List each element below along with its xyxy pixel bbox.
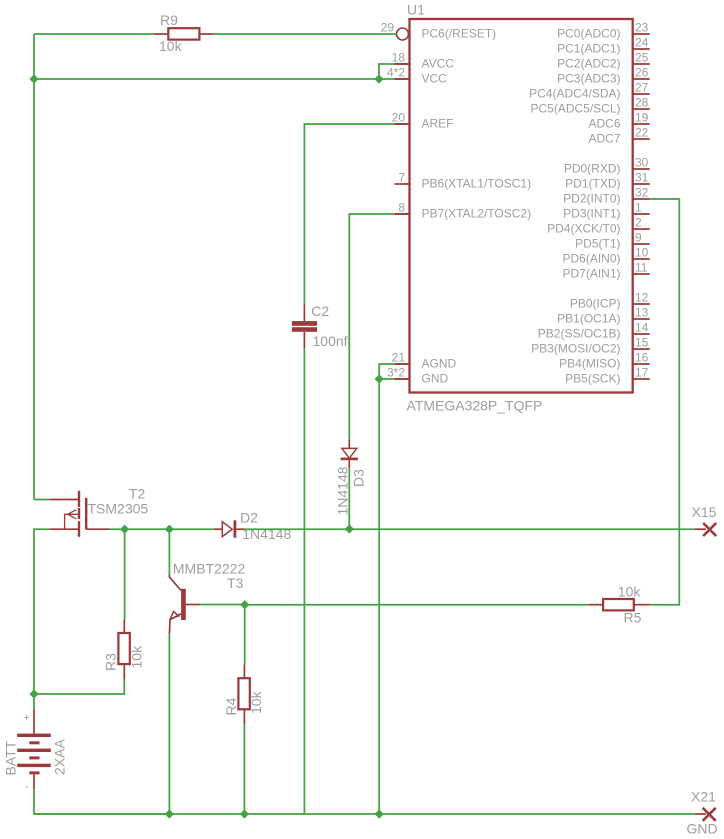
svg-text:17: 17 xyxy=(635,366,649,380)
svg-text:PB6(XTAL1/TOSC1): PB6(XTAL1/TOSC1) xyxy=(422,176,532,190)
svg-text:3*2: 3*2 xyxy=(387,366,405,380)
svg-text:T2: T2 xyxy=(129,486,146,502)
wire PD2 to right rail xyxy=(650,199,680,605)
svg-text:ATMEGA328P_TQFP: ATMEGA328P_TQFP xyxy=(407,398,543,414)
wire R4 to rail xyxy=(243,725,245,814)
pin 20 stub xyxy=(394,123,408,125)
battery BATT lead minus xyxy=(33,774,35,789)
svg-text:PB2(SS/OC1B): PB2(SS/OC1B) xyxy=(538,326,621,340)
diode D2 triangle xyxy=(222,522,232,537)
pin 26 stub xyxy=(633,78,649,80)
wire C2 bottom to GND rail xyxy=(303,348,305,814)
resistor R5 lead left xyxy=(588,604,603,606)
resistor R9 body xyxy=(168,28,199,39)
svg-text:24: 24 xyxy=(635,36,649,50)
svg-text:PD4(XCK/T0): PD4(XCK/T0) xyxy=(547,221,620,235)
transistor T3 base lead xyxy=(186,604,200,606)
pin 13 stub xyxy=(633,318,649,320)
transistor T2 channel bottom segment xyxy=(78,521,80,537)
connector X21 cross xyxy=(703,808,716,821)
svg-text:18: 18 xyxy=(392,51,406,65)
node junction T3 collector tap xyxy=(165,525,174,534)
node junction R4 rail xyxy=(240,809,249,818)
wire AREF to C2 xyxy=(304,124,394,304)
svg-text:X15: X15 xyxy=(692,504,717,520)
svg-text:MMBT2222: MMBT2222 xyxy=(173,560,246,576)
svg-text:PD1(TXD): PD1(TXD) xyxy=(565,176,620,190)
svg-text:14: 14 xyxy=(635,321,649,335)
transistor T2 gate bar xyxy=(85,498,87,529)
wire junction to R4 xyxy=(244,605,246,665)
pin 25 stub xyxy=(633,63,649,65)
wire R9 right to pin29 bubble xyxy=(214,33,397,35)
battery BATT plate long 3 xyxy=(17,764,51,767)
diode D2 lead right xyxy=(236,528,244,530)
pin 19 stub xyxy=(633,123,649,125)
wire battery to T2 source xyxy=(34,529,49,694)
svg-text:32: 32 xyxy=(635,186,649,200)
svg-text:PC4(ADC4/SDA): PC4(ADC4/SDA) xyxy=(529,86,620,100)
resistor R3 lead bottom xyxy=(123,664,125,680)
pin 16 stub xyxy=(633,363,649,365)
resistor R5 lead right xyxy=(634,604,651,606)
node junction battery plus xyxy=(29,689,38,698)
svg-text:GND: GND xyxy=(422,371,449,385)
pin 14 stub xyxy=(633,333,649,335)
transistor T2 gate lead xyxy=(86,528,109,530)
transistor T3 base bar xyxy=(181,589,186,620)
pin 3*2 stub xyxy=(394,378,408,380)
svg-text:15: 15 xyxy=(635,336,649,350)
pin 17 stub xyxy=(633,378,649,380)
svg-text:13: 13 xyxy=(635,306,649,320)
svg-text:GND: GND xyxy=(687,821,718,837)
pin 27 stub xyxy=(633,93,649,95)
capacitor C2 plate top xyxy=(292,321,317,326)
svg-text:10k: 10k xyxy=(129,645,145,669)
node junction GND xyxy=(375,374,384,383)
diode D2 cathode bar xyxy=(234,520,237,537)
svg-text:1: 1 xyxy=(635,201,642,215)
svg-text:10k: 10k xyxy=(618,584,642,600)
pin 18 stub xyxy=(394,63,408,65)
node junction VCC left xyxy=(29,74,38,83)
wire AVCC branch xyxy=(379,64,394,79)
resistor R5 body xyxy=(603,599,634,610)
node junction GND rail xyxy=(375,809,384,818)
svg-text:+: + xyxy=(23,712,29,724)
wire rail to R3 xyxy=(124,529,126,619)
svg-text:10k: 10k xyxy=(248,690,264,714)
resistor R9 lead left xyxy=(154,33,169,35)
wire battery plus xyxy=(33,694,35,709)
svg-text:26: 26 xyxy=(635,66,649,80)
battery BATT plate short 3 xyxy=(29,771,39,774)
svg-text:PB3(MOSI/OC2): PB3(MOSI/OC2) xyxy=(531,341,620,355)
pin 11 stub xyxy=(633,273,649,275)
battery BATT plate long 2 xyxy=(17,749,51,752)
svg-text:PC5(ADC5/SCL): PC5(ADC5/SCL) xyxy=(530,101,620,115)
svg-text:R4: R4 xyxy=(223,697,239,715)
pin 23 stub xyxy=(633,33,649,35)
diode D3 lead bottom xyxy=(348,460,350,468)
pin 30 stub xyxy=(633,168,649,170)
capacitor C2 lead top xyxy=(303,304,305,321)
pin 7 stub xyxy=(394,183,408,185)
resistor R4 lead top xyxy=(243,664,245,678)
svg-text:ADC6: ADC6 xyxy=(588,116,620,130)
transistor T3 emitter lead xyxy=(169,614,181,634)
node junction T3 base xyxy=(240,600,249,609)
svg-text:25: 25 xyxy=(635,51,649,65)
svg-text:2: 2 xyxy=(635,216,642,230)
connector X21 lead xyxy=(695,813,706,815)
resistor R4 body xyxy=(238,678,249,709)
svg-text:BATT: BATT xyxy=(3,740,19,775)
svg-text:PD2(INT0): PD2(INT0) xyxy=(563,191,620,205)
transistor T2 drain lead xyxy=(49,499,79,501)
svg-text:22: 22 xyxy=(635,126,649,140)
svg-text:R5: R5 xyxy=(624,610,642,626)
wire battery minus to rail xyxy=(34,789,169,814)
svg-text:PB4(MISO): PB4(MISO) xyxy=(559,356,620,370)
pin 4*2 stub xyxy=(394,78,408,80)
svg-text:AREF: AREF xyxy=(422,116,454,130)
pin 4*2 stub xyxy=(394,78,408,80)
pin 8 stub xyxy=(394,213,408,215)
diode D2 lead left xyxy=(214,528,222,530)
svg-text:11: 11 xyxy=(635,261,648,275)
pin 3*2 stub xyxy=(394,378,408,380)
svg-text:D2: D2 xyxy=(240,510,258,526)
wire rail to T3 collector xyxy=(168,529,170,574)
svg-text:23: 23 xyxy=(635,21,649,35)
svg-text:PC2(ADC2): PC2(ADC2) xyxy=(557,56,620,70)
svg-text:ADC7: ADC7 xyxy=(588,131,620,145)
battery BATT plate short 1 xyxy=(29,741,39,744)
pin 18 stub xyxy=(394,63,408,65)
svg-text:AGND: AGND xyxy=(422,356,457,370)
svg-text:PD6(AIN0): PD6(AIN0) xyxy=(562,251,620,265)
svg-text:10k: 10k xyxy=(159,38,183,54)
diode D3 triangle xyxy=(342,448,357,458)
wire R3 bottom to battery xyxy=(34,680,124,694)
battery BATT plate long 1 xyxy=(17,734,51,737)
connector X15 cross xyxy=(703,523,716,536)
svg-text:PC6(/RESET): PC6(/RESET) xyxy=(422,26,497,40)
svg-text:27: 27 xyxy=(635,81,649,95)
wire gate rail right to X15 xyxy=(244,528,695,530)
wire VCC to VCC pin xyxy=(34,78,394,80)
transistor T2 channel mid segment xyxy=(78,508,80,519)
svg-text:20: 20 xyxy=(392,111,406,125)
transistor T2 bulk connection xyxy=(65,514,79,529)
svg-text:PB5(SCK): PB5(SCK) xyxy=(565,371,620,385)
svg-text:U1: U1 xyxy=(407,2,425,18)
svg-text:10: 10 xyxy=(635,246,649,260)
svg-text:19: 19 xyxy=(635,111,649,125)
wire PB7 to D3 xyxy=(349,214,394,439)
node junction D3 rail xyxy=(345,524,354,533)
svg-text:D3: D3 xyxy=(351,469,367,487)
svg-text:AVCC: AVCC xyxy=(422,56,455,70)
svg-text:R9: R9 xyxy=(160,12,178,28)
pin 8 stub xyxy=(394,213,408,215)
pin 12 stub xyxy=(633,303,649,305)
pin 21 stub xyxy=(394,363,408,365)
svg-text:9: 9 xyxy=(635,231,642,245)
svg-text:8: 8 xyxy=(398,201,405,215)
svg-text:2XAA: 2XAA xyxy=(52,739,68,775)
resistor R3 body xyxy=(118,633,129,664)
svg-text:12: 12 xyxy=(635,291,649,305)
capacitor C2 lead bottom xyxy=(303,332,305,349)
resistor R9 lead right xyxy=(199,33,214,35)
pin 28 stub xyxy=(633,108,649,110)
node junction emitter rail xyxy=(165,809,174,818)
svg-text:T3: T3 xyxy=(227,575,244,591)
battery BATT lead plus xyxy=(33,709,35,733)
wire T3 emitter to rail xyxy=(168,634,170,814)
svg-text:28: 28 xyxy=(635,96,649,110)
svg-text:30: 30 xyxy=(635,156,649,170)
capacitor C2 plate bottom xyxy=(292,327,317,332)
pin 24 stub xyxy=(633,48,649,50)
svg-text:PC1(ADC1): PC1(ADC1) xyxy=(557,41,620,55)
pin 15 stub xyxy=(633,348,649,350)
transistor T2 channel top segment xyxy=(78,491,80,507)
svg-text:100nf: 100nf xyxy=(313,333,348,349)
connector X15 lead xyxy=(695,528,706,530)
pin 20 stub xyxy=(394,123,408,125)
node junction R3 tap xyxy=(120,525,129,534)
svg-text:29: 29 xyxy=(381,21,395,35)
pin 2 stub xyxy=(633,228,649,230)
transistor T2 bulk arrow xyxy=(68,510,77,519)
svg-text:VCC: VCC xyxy=(422,71,448,85)
diode D3 cathode bar xyxy=(341,458,358,461)
resistor R4 lead bottom xyxy=(243,709,245,724)
svg-text:1N4148: 1N4148 xyxy=(335,466,351,515)
svg-text:PC0(ADC0): PC0(ADC0) xyxy=(557,26,620,40)
svg-text:PC3(ADC3): PC3(ADC3) xyxy=(557,71,620,85)
wire GND rail xyxy=(34,813,695,815)
svg-text:TSM2305: TSM2305 xyxy=(88,501,149,517)
transistor T3 collector lead xyxy=(169,574,181,590)
svg-text:-: - xyxy=(25,781,29,793)
svg-text:21: 21 xyxy=(392,351,406,365)
wire VCC to T2 drain xyxy=(34,499,49,501)
transistor T2 source lead xyxy=(49,528,79,530)
pin 9 stub xyxy=(633,243,649,245)
wire R5 to T3 base junction xyxy=(245,604,589,606)
wire gate rail left xyxy=(109,528,213,530)
wire GND pin xyxy=(379,378,394,380)
transistor T3 emitter arrow xyxy=(170,612,179,619)
svg-text:4*2: 4*2 xyxy=(387,66,405,80)
svg-text:PD3(INT1): PD3(INT1) xyxy=(563,206,620,220)
wire R9 left to corner xyxy=(34,33,154,35)
wire T3 base to junction xyxy=(200,604,245,606)
svg-text:PB1(OC1A): PB1(OC1A) xyxy=(557,311,620,325)
wire VCC vertical left rail xyxy=(33,34,35,500)
svg-text:PD0(RXD): PD0(RXD) xyxy=(564,161,621,175)
node junction AVCC xyxy=(374,74,383,83)
pin 32 stub xyxy=(633,198,649,200)
battery BATT plate short 2 xyxy=(29,756,39,759)
wire D3 to gate rail xyxy=(348,468,350,529)
svg-text:R3: R3 xyxy=(103,653,119,671)
svg-text:7: 7 xyxy=(398,171,405,185)
svg-text:PD5(T1): PD5(T1) xyxy=(575,236,620,250)
svg-text:X21: X21 xyxy=(691,789,716,805)
pin 22 stub xyxy=(633,138,649,140)
pin 10 stub xyxy=(633,258,649,260)
pin 31 stub xyxy=(633,183,649,185)
wire AGND branch xyxy=(379,364,394,379)
svg-text:31: 31 xyxy=(635,171,649,185)
svg-text:PB0(ICP): PB0(ICP) xyxy=(570,296,621,310)
svg-text:PB7(XTAL2/TOSC2): PB7(XTAL2/TOSC2) xyxy=(422,206,532,220)
svg-text:C2: C2 xyxy=(311,303,329,319)
resistor R3 lead top xyxy=(123,620,125,633)
pin 1 stub xyxy=(633,213,649,215)
svg-text:16: 16 xyxy=(635,351,649,365)
svg-text:PD7(AIN1): PD7(AIN1) xyxy=(562,266,620,280)
pin 29 PC6(/RESET) inversion bubble xyxy=(397,28,409,40)
IC U1 box xyxy=(410,19,633,393)
pin 21 stub xyxy=(394,363,408,365)
diode D3 lead top xyxy=(348,439,350,448)
wire GND vertical to rail xyxy=(378,379,380,814)
